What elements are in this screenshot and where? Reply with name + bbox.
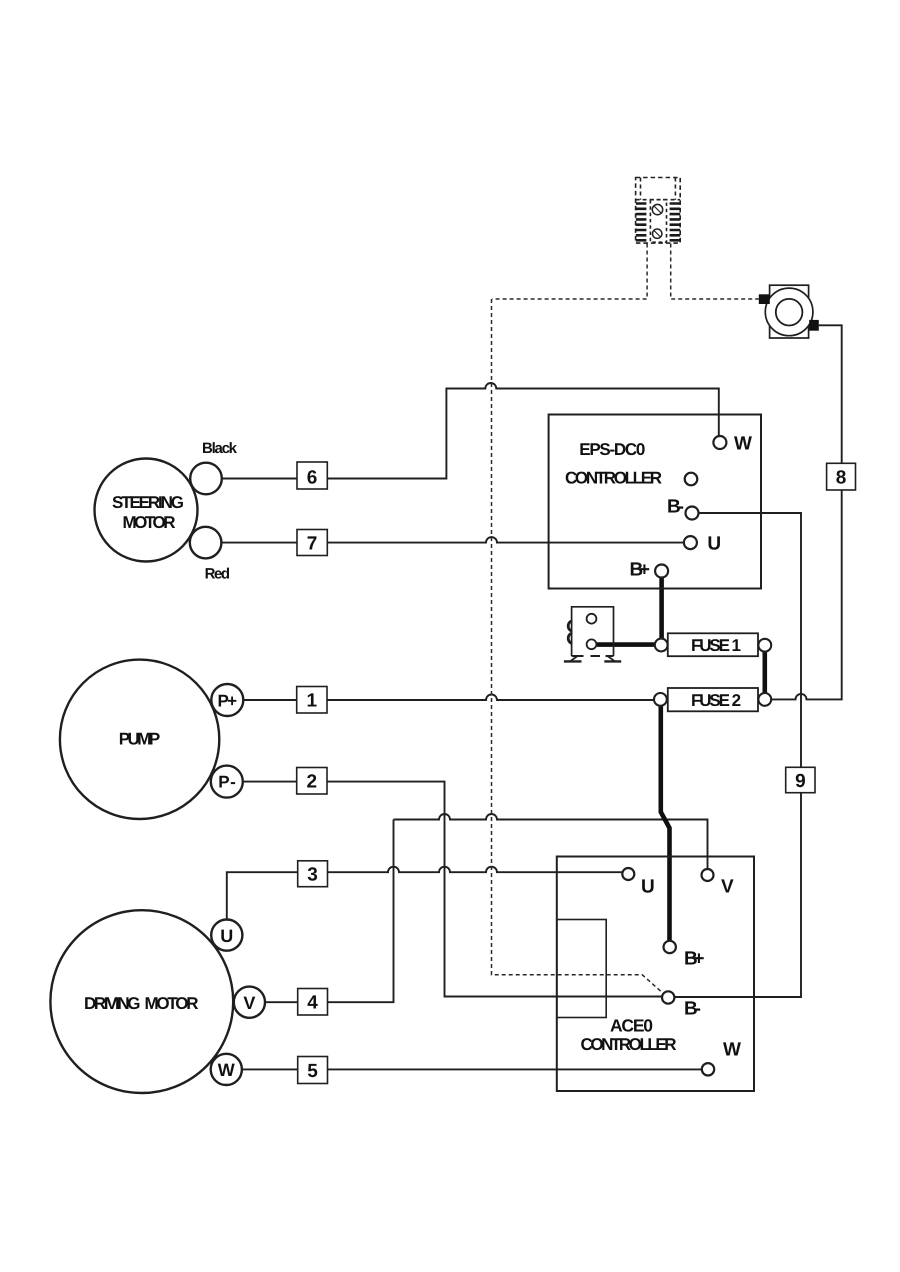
svg-text:U: U — [707, 533, 721, 554]
svg-text:1: 1 — [731, 636, 740, 655]
svg-text:5: 5 — [307, 1061, 318, 1082]
svg-text:W: W — [218, 1060, 235, 1080]
svg-text:EPS-DC0: EPS-DC0 — [579, 440, 645, 459]
svg-text:U: U — [220, 926, 233, 946]
svg-text:B-: B- — [667, 497, 684, 518]
svg-text:Black: Black — [202, 440, 238, 457]
svg-text:CONTROLLER: CONTROLLER — [581, 1035, 677, 1054]
svg-text:B+: B+ — [684, 949, 705, 970]
svg-text:P-: P- — [218, 773, 236, 792]
svg-text:MOTOR: MOTOR — [123, 513, 176, 532]
svg-text:FUSE: FUSE — [691, 691, 730, 710]
svg-text:V: V — [721, 876, 734, 897]
svg-text:P+: P+ — [218, 692, 238, 711]
svg-text:FUSE: FUSE — [691, 636, 730, 655]
svg-text:W: W — [723, 1040, 741, 1061]
svg-text:9: 9 — [795, 771, 806, 792]
svg-text:V: V — [243, 993, 255, 1013]
svg-text:1: 1 — [307, 691, 318, 712]
svg-text:3: 3 — [307, 865, 318, 886]
svg-text:W: W — [734, 434, 752, 455]
svg-text:B-: B- — [684, 999, 701, 1020]
svg-text:B+: B+ — [630, 560, 651, 581]
svg-text:8: 8 — [836, 468, 847, 489]
svg-text:7: 7 — [307, 533, 318, 554]
svg-text:ACE0: ACE0 — [610, 1016, 653, 1036]
svg-text:U: U — [641, 877, 655, 898]
svg-text:PUMP: PUMP — [119, 730, 161, 749]
svg-text:CONTROLLER: CONTROLLER — [565, 469, 662, 488]
svg-text:Red: Red — [205, 566, 231, 583]
svg-text:2: 2 — [732, 691, 741, 710]
svg-text:MOTOR: MOTOR — [145, 994, 199, 1013]
svg-text:STEERING: STEERING — [112, 493, 184, 512]
svg-text:2: 2 — [307, 772, 318, 793]
svg-text:4: 4 — [307, 993, 318, 1014]
svg-text:DRIVING: DRIVING — [84, 994, 141, 1013]
svg-text:6: 6 — [307, 468, 318, 489]
